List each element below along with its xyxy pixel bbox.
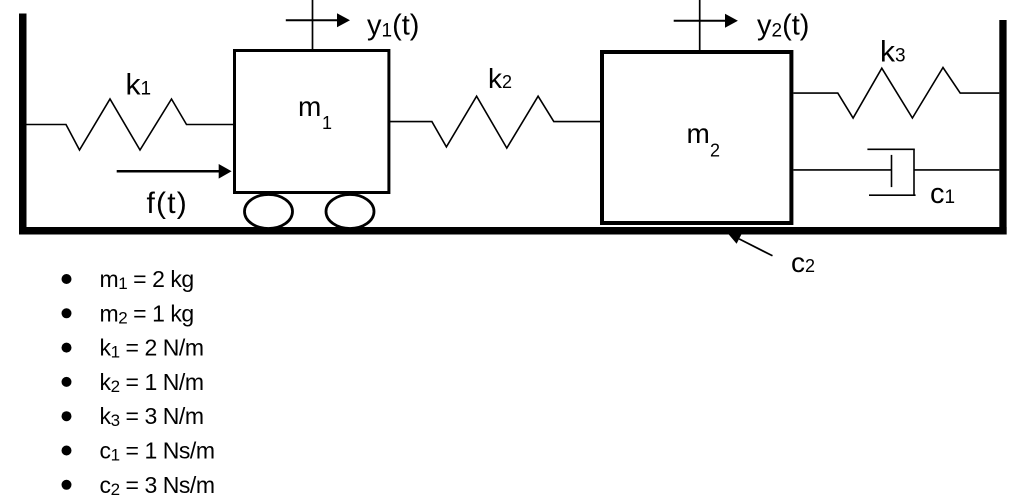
svg-text:2: 2	[710, 141, 720, 161]
svg-text:y2(t): y2(t)	[757, 10, 809, 42]
svg-text:f(t): f(t)	[147, 187, 188, 220]
svg-text:m: m	[298, 91, 321, 122]
svg-text:y1(t): y1(t)	[367, 10, 419, 42]
svg-text:1: 1	[322, 113, 332, 133]
svg-text:m: m	[687, 118, 710, 149]
svg-text:m1 = 2 kg: m1 = 2 kg	[100, 266, 194, 293]
svg-text:m2 = 1 kg: m2 = 1 kg	[100, 300, 194, 327]
